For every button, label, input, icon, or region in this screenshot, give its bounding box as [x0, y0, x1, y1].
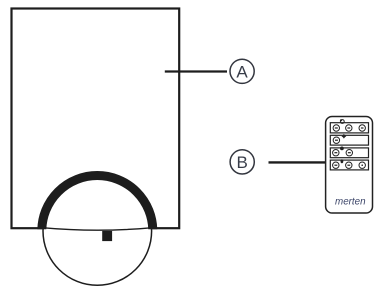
svg-text:merten: merten: [335, 196, 366, 207]
row3 button 2: [346, 150, 352, 156]
leader line A: [165, 70, 227, 72]
svg-text:A: A: [236, 62, 248, 81]
leader line B: [269, 161, 326, 163]
lens mask: [44, 178, 151, 285]
row1 icon: [340, 120, 344, 124]
remote button row 2: [330, 135, 368, 145]
row2 icon star: [342, 134, 347, 139]
lens window square: [102, 231, 112, 241]
device housing rectangle: [12, 9, 180, 229]
remote button row 1: [330, 123, 368, 133]
row1 button 1: [333, 125, 339, 131]
lens seam: [44, 228, 151, 230]
svg-text:B: B: [237, 153, 248, 172]
lens circle: [43, 177, 152, 286]
label B: [230, 150, 254, 174]
row2 button 1: [333, 137, 339, 143]
row4 button 2: [346, 162, 352, 168]
row1 button 3: [359, 125, 365, 131]
remote button row 3: [330, 148, 368, 158]
row3 button 1: [333, 150, 339, 156]
label A: [230, 59, 254, 83]
lens thick arc: [42, 176, 153, 287]
remote button row 4: [330, 160, 368, 170]
row4 icon: [341, 159, 344, 163]
row4 button 1: [333, 162, 339, 168]
row1 button 2: [346, 125, 352, 131]
remote body: [326, 117, 373, 214]
row3 icon: [340, 147, 344, 151]
row4 button 3: [359, 162, 365, 168]
